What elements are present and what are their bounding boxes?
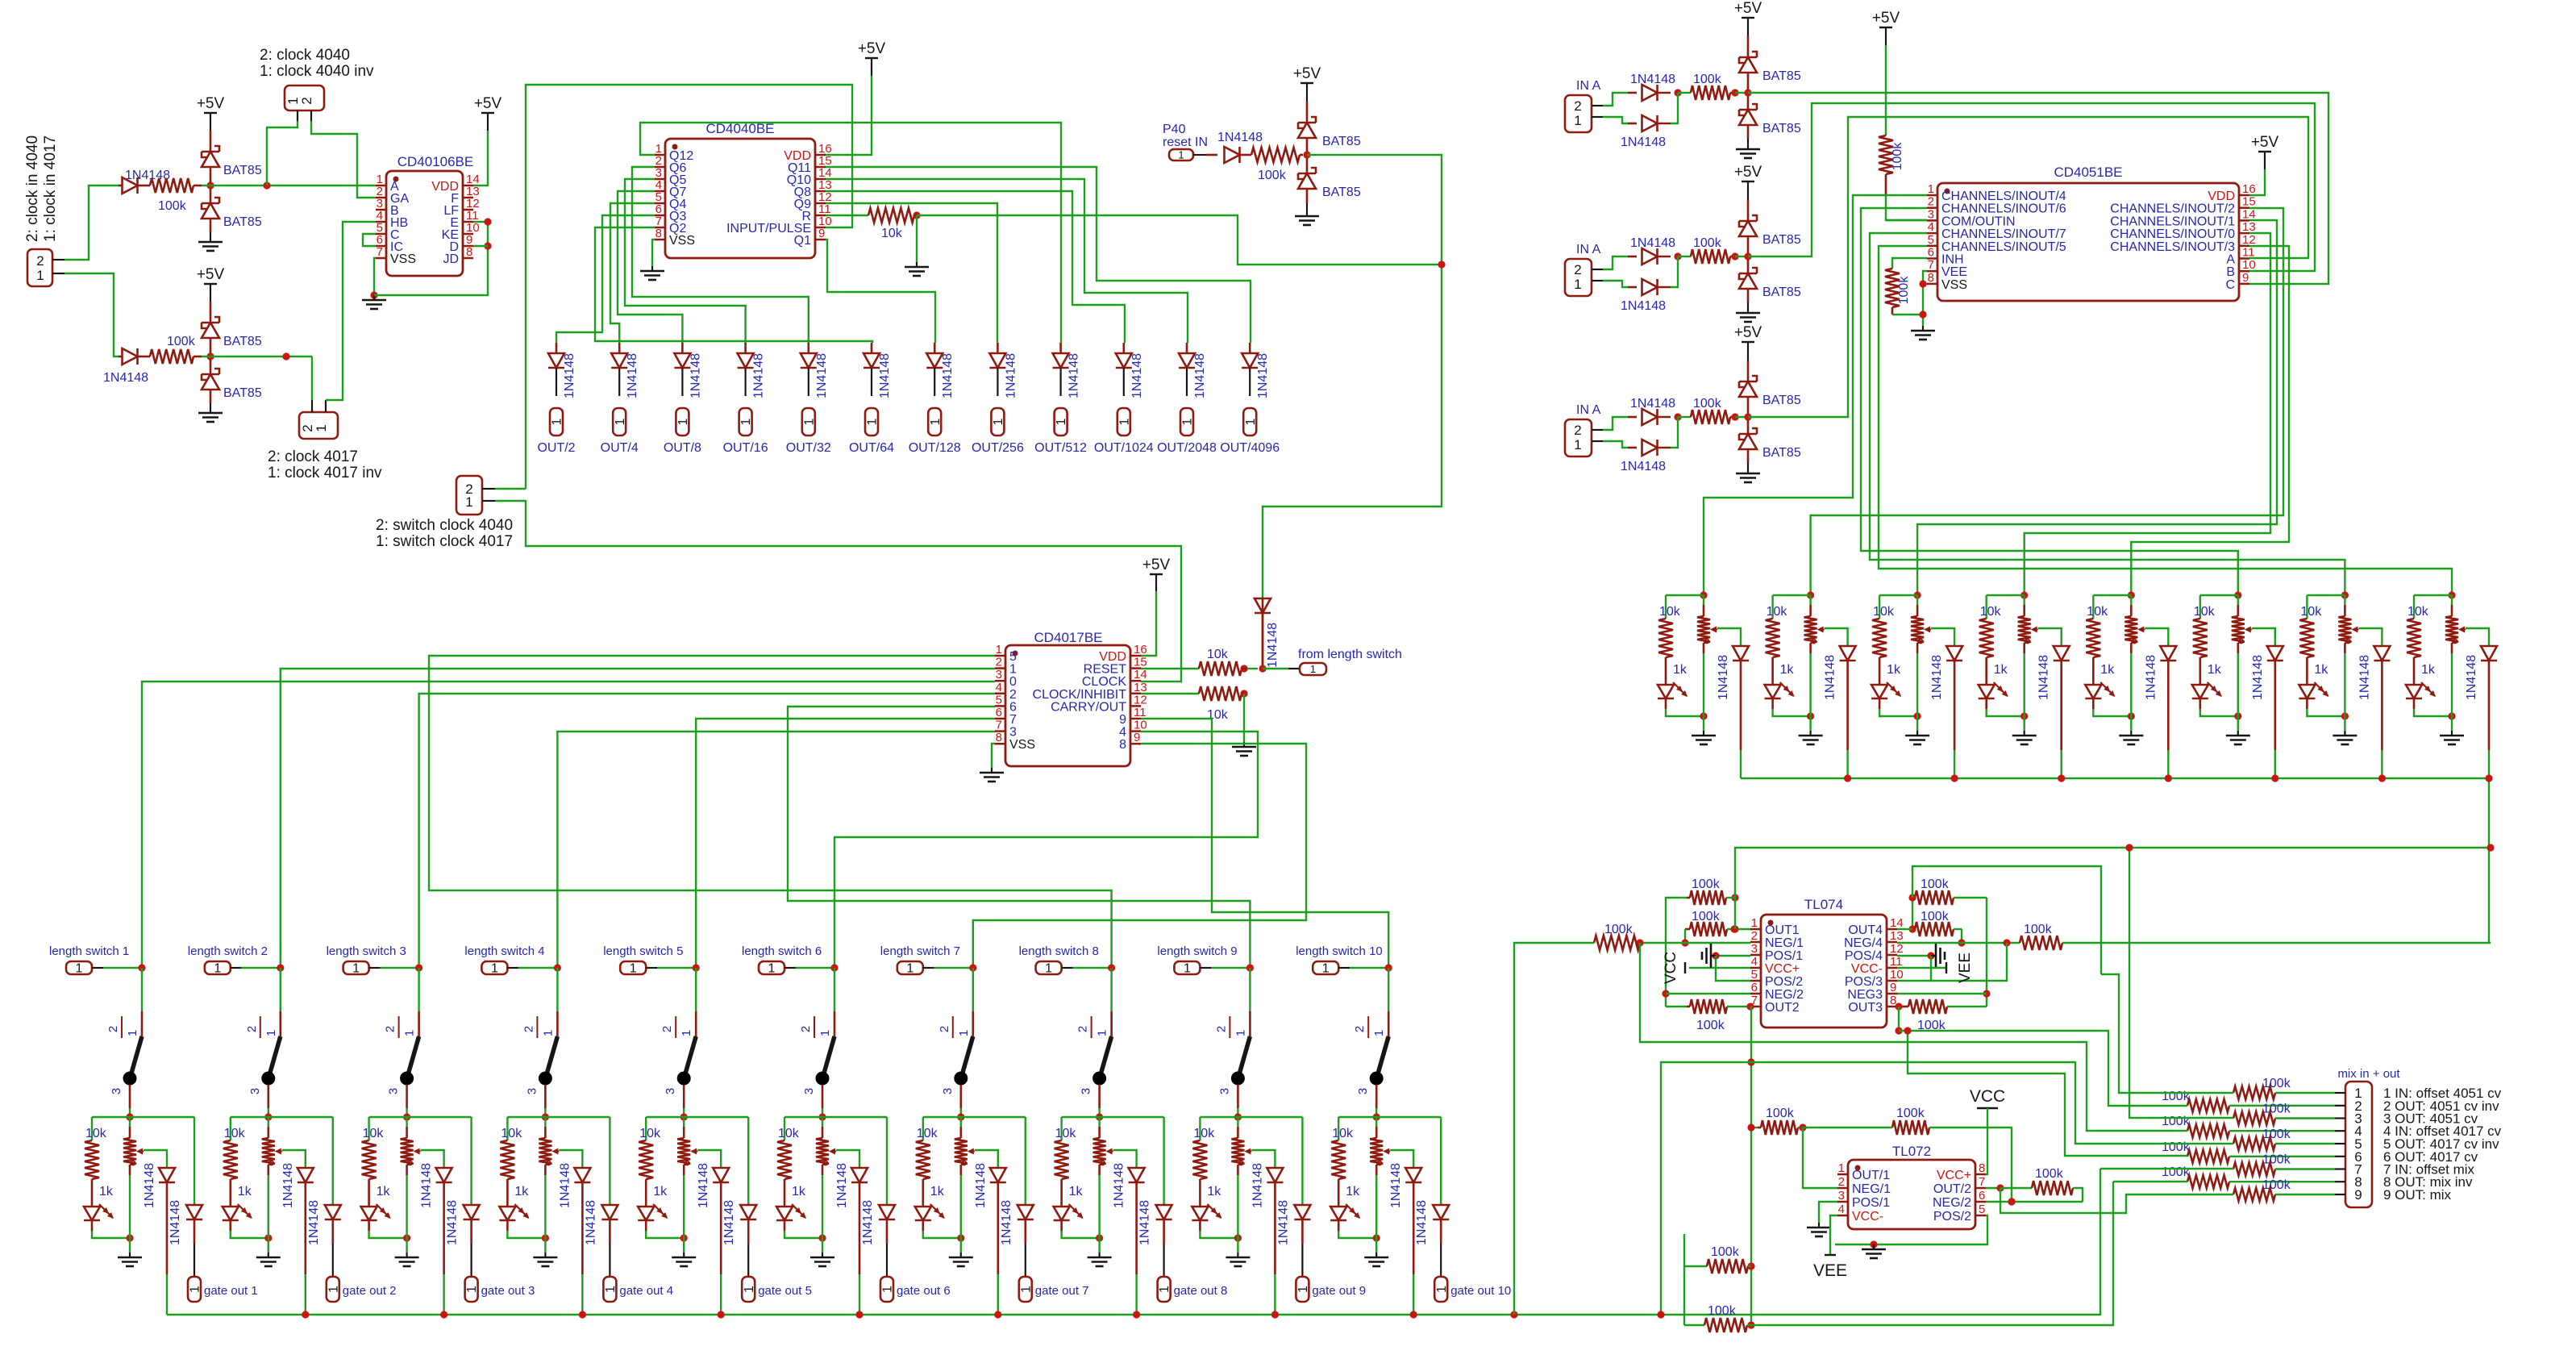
svg-text:length switch 5: length switch 5	[603, 944, 683, 958]
svg-text:1: 1	[739, 418, 753, 425]
U1 VSS ground wire	[362, 258, 386, 309]
svg-text:100k: 100k	[2162, 1115, 2191, 1128]
connector P-sw3	[343, 961, 381, 976]
connector IN A	[1565, 259, 1603, 296]
svg-text:C: C	[2225, 278, 2235, 292]
svg-text:2: clock 4017: 2: clock 4017	[268, 448, 358, 465]
potentiometer RV-p6 10k	[2194, 595, 2252, 716]
svg-text:length switch 6: length switch 6	[742, 944, 822, 958]
ground pot 6	[2226, 716, 2250, 744]
svg-text:mix in + out: mix in + out	[2337, 1067, 2400, 1081]
diode D-pw4 1N4148	[2037, 628, 2070, 778]
potentiometer RV3 10k	[363, 1117, 421, 1238]
U4 pin 3 COM/OUTIN	[1927, 207, 2016, 228]
diode D-OUT2 1N4148	[611, 343, 639, 398]
diode D-gate9 1N4148	[1276, 1117, 1310, 1277]
resistor R4 100k	[1251, 148, 1303, 182]
svg-text:1: 1	[465, 1286, 479, 1293]
resistor R-sw1 1k	[85, 1117, 114, 1207]
svg-text:1N4148: 1N4148	[722, 1200, 736, 1245]
svg-text:gate out 5: gate out 5	[758, 1284, 812, 1298]
svg-text:NEG/2: NEG/2	[1765, 988, 1804, 1002]
LED D-sw6	[776, 1204, 826, 1242]
svg-text:14: 14	[1134, 668, 1147, 682]
+5V supply	[197, 266, 225, 323]
node pot 4 top	[2020, 591, 2028, 598]
potentiometer RV6 10k	[778, 1117, 836, 1238]
svg-text:1N4148: 1N4148	[1000, 1200, 1013, 1245]
svg-text:1: 1	[403, 1030, 417, 1036]
op-amp U6 TL072 box	[1848, 1144, 1975, 1229]
svg-text:3: 3	[387, 1088, 401, 1094]
diode D-pw8 1N4148	[2465, 628, 2497, 778]
wire U2 Q12 route	[640, 123, 1061, 343]
svg-text:NEG/1: NEG/1	[1765, 936, 1804, 950]
wire OUT2 to mix5	[0, 0, 1, 1]
U4 pin 10 B	[2226, 258, 2255, 279]
node clk4017	[206, 352, 214, 360]
+5V supply	[1293, 65, 1321, 123]
diode D-OUT1 1N4148	[548, 343, 576, 398]
svg-text:4: 4	[1928, 220, 1934, 234]
U2 pin 12 Q9	[794, 190, 832, 211]
U1 +5V supply	[473, 95, 501, 186]
resistor 100k	[1678, 397, 1752, 424]
U5 VCC+ supply	[1663, 952, 1750, 984]
+5V supply	[1734, 164, 1762, 221]
connector P-sw7	[897, 961, 934, 976]
U3 pin 10 4	[1119, 719, 1147, 740]
svg-text:100k: 100k	[2262, 1178, 2291, 1192]
svg-text:3: 3	[248, 1088, 262, 1094]
svg-text:1k: 1k	[930, 1185, 945, 1199]
svg-text:OUT/512: OUT/512	[1034, 441, 1087, 455]
svg-text:100k: 100k	[2262, 1077, 2291, 1090]
gate bus wire	[167, 1169, 2100, 1319]
svg-text:2: 2	[799, 1026, 813, 1032]
LED D-sw9	[1192, 1204, 1242, 1242]
wire mix inv to row8	[1751, 1182, 2113, 1325]
svg-text:1: 1	[604, 1286, 618, 1293]
svg-text:100k: 100k	[1693, 397, 1722, 411]
svg-text:1: 1	[680, 1030, 693, 1036]
U5 pin 10 POS/3	[1845, 968, 1904, 989]
svg-text:1: 1	[1181, 418, 1195, 425]
diode D-OUT7 1N4148	[926, 343, 955, 398]
node pot 7 top	[2341, 591, 2349, 598]
wire clock in 4040	[65, 186, 119, 260]
svg-text:1: 1	[189, 1286, 202, 1293]
ground pot 1	[1692, 716, 1716, 744]
LED D-sw2	[223, 1204, 273, 1242]
svg-text:2: 2	[1574, 423, 1581, 438]
svg-text:1N4148: 1N4148	[697, 1163, 710, 1208]
diode D-OUT4 1N4148	[738, 343, 766, 398]
label length switch 5	[603, 944, 683, 958]
ground pot 7	[2333, 716, 2357, 744]
+5V supply	[197, 95, 225, 152]
svg-text:POS/1: POS/1	[1852, 1196, 1890, 1210]
svg-text:length switch 8: length switch 8	[1019, 944, 1099, 958]
U1 pin 4 HB	[376, 209, 408, 230]
U5 pin 8 OUT3	[1848, 994, 1897, 1015]
svg-text:4: 4	[1838, 1203, 1845, 1216]
svg-text:1N4148: 1N4148	[1621, 299, 1666, 313]
svg-text:12: 12	[1890, 942, 1904, 956]
diode D-gate10 1N4148	[1415, 1117, 1449, 1277]
wire U2 output route	[632, 167, 809, 343]
wire mix row1	[2101, 974, 2233, 1093]
wire U2 Q1 route	[826, 240, 935, 343]
svg-text:Q1: Q1	[794, 234, 811, 248]
U4 pin 4 CHANNELS/INOUT/7	[1927, 220, 2066, 241]
diode D-OUT12 1N4148	[1242, 343, 1270, 398]
diode D-wiper8 1N4148	[1113, 1150, 1145, 1315]
wire IN A pin1	[1603, 117, 1628, 123]
diode D-pw2 1N4148	[1824, 628, 1856, 778]
ground	[1736, 138, 1760, 158]
svg-text:VSS: VSS	[390, 252, 416, 266]
wire P3.1 to U1.HB	[326, 222, 376, 400]
wire U3 out to switch 7	[973, 744, 1306, 968]
svg-text:1k: 1k	[1069, 1185, 1084, 1199]
wire mix row5	[1751, 1062, 2233, 1144]
svg-text:3: 3	[941, 1088, 955, 1094]
resistor R-mix8 100k	[2162, 1165, 2335, 1188]
svg-text:CARRY/OUT: CARRY/OUT	[1051, 700, 1126, 714]
svg-text:3: 3	[1217, 1088, 1231, 1094]
svg-text:100k: 100k	[167, 335, 196, 348]
svg-text:OUT/128: OUT/128	[909, 441, 961, 455]
svg-text:BAT85: BAT85	[1762, 286, 1801, 299]
svg-text:1: 1	[1158, 1286, 1171, 1293]
connector gate out 2	[327, 1277, 397, 1302]
wire U3 out to switch 3	[419, 694, 995, 968]
connector P4 switch clock	[456, 476, 495, 515]
svg-text:+5V: +5V	[197, 266, 225, 283]
svg-text:7: 7	[1979, 1175, 1985, 1189]
svg-text:3: 3	[1356, 1088, 1370, 1094]
svg-text:9: 9	[2242, 271, 2249, 285]
svg-text:1N4148: 1N4148	[2144, 655, 2158, 700]
svg-text:2: clock in 4040: 2: clock in 4040	[24, 135, 41, 242]
U2 +5V supply	[826, 40, 885, 155]
U1 pin 1 A	[376, 173, 399, 194]
svg-text:4: 4	[1751, 955, 1758, 969]
svg-text:16: 16	[2242, 182, 2256, 196]
U1 pin 9 D	[449, 233, 473, 254]
svg-text:3: 3	[525, 1088, 539, 1094]
svg-text:100k: 100k	[158, 199, 187, 213]
schottky BAT85 lower	[1739, 96, 1801, 138]
wire U2 Q9 route	[826, 203, 997, 343]
U4 pin 7 VEE	[1927, 258, 1967, 279]
resistor R8 100k INH pulldown	[1885, 258, 1927, 315]
note: clock in labels	[24, 135, 59, 242]
svg-text:1k: 1k	[1207, 1185, 1221, 1199]
svg-text:1: 1	[743, 1286, 756, 1293]
resistor 100k	[1678, 236, 1752, 264]
svg-text:1k: 1k	[653, 1185, 668, 1199]
svg-text:1N4148: 1N4148	[1004, 353, 1017, 398]
svg-text:3: 3	[1928, 207, 1934, 221]
svg-text:1: 1	[1435, 1286, 1449, 1293]
ground pot 3	[1905, 716, 1929, 744]
resistor R-p5 1k	[2086, 595, 2115, 685]
U4 pin 15 CHANNELS/INOUT/2	[2110, 195, 2255, 216]
wire U4 ch to pot 7	[1870, 233, 2345, 595]
diode 1N4148 upper	[1628, 397, 1675, 425]
resistor R11 100k gate bus	[1514, 923, 1640, 1315]
resistor R2 100k	[150, 335, 202, 364]
svg-text:OUT3: OUT3	[1848, 1001, 1883, 1015]
svg-text:9: 9	[1134, 731, 1140, 744]
svg-text:1N4148: 1N4148	[1415, 1200, 1429, 1245]
svg-text:2: 2	[384, 1026, 397, 1032]
svg-text:CHANNELS/INOUT/4: CHANNELS/INOUT/4	[1941, 190, 2066, 203]
svg-text:2: switch clock 4040: 2: switch clock 4040	[376, 517, 513, 534]
svg-text:1: 1	[1751, 916, 1758, 930]
U5 pin 6 NEG/2	[1750, 981, 1804, 1002]
svg-text:1N4148: 1N4148	[974, 1163, 988, 1208]
svg-text:length switch 4: length switch 4	[464, 944, 544, 958]
svg-text:2: 2	[36, 253, 44, 269]
svg-text:1: 1	[614, 418, 627, 425]
U3 pin 1 5	[995, 643, 1017, 664]
svg-text:1: 1	[929, 418, 943, 425]
svg-text:100k: 100k	[1921, 910, 1950, 923]
resistor R-p1 1k	[1658, 595, 1688, 685]
svg-text:1: clock in 4017: 1: clock in 4017	[42, 135, 59, 242]
svg-text:1: 1	[327, 1286, 340, 1293]
wire IN A1 to U4.C	[1748, 93, 2328, 284]
ground sw10	[1364, 1238, 1388, 1266]
connector OUT/2	[537, 408, 575, 455]
svg-text:1N4148: 1N4148	[1824, 655, 1837, 700]
diode 1N4148 upper	[1628, 236, 1675, 265]
svg-text:10: 10	[1134, 719, 1147, 732]
svg-text:P40: P40	[1163, 123, 1186, 136]
diode D8 1N4148 reset	[1255, 598, 1280, 668]
svg-text:1k: 1k	[2100, 663, 2115, 677]
potentiometer RV4 10k	[501, 1117, 559, 1238]
svg-text:10k: 10k	[224, 1127, 246, 1140]
svg-text:1: clock 4017 inv: 1: clock 4017 inv	[268, 465, 382, 481]
wire sw6 rail	[784, 1116, 887, 1118]
svg-text:10k: 10k	[85, 1127, 107, 1140]
U2 pin 8 VSS	[655, 227, 695, 248]
U6 pin 1 OUT/1	[1837, 1161, 1890, 1182]
svg-text:+5V: +5V	[1734, 324, 1762, 341]
svg-text:10k: 10k	[2087, 605, 2108, 619]
svg-text:1k: 1k	[99, 1185, 114, 1199]
wire U4 ch to pot 4	[2025, 233, 2270, 595]
LED D-p6	[2192, 682, 2242, 720]
svg-text:OUT2: OUT2	[1765, 1001, 1800, 1015]
svg-text:2: 2	[1574, 98, 1581, 114]
svg-text:10k: 10k	[2407, 605, 2429, 619]
svg-text:from length switch: from length switch	[1298, 648, 1402, 661]
U3 pin 7 3	[995, 719, 1017, 740]
svg-text:length switch 3: length switch 3	[327, 944, 406, 958]
wire pot 5 rail	[2093, 594, 2131, 596]
diode D-OUT8 1N4148	[989, 343, 1017, 398]
svg-text:5: 5	[996, 693, 1002, 707]
svg-text:+5V: +5V	[1734, 0, 1762, 17]
connector OUT/2048	[1157, 408, 1217, 455]
wire U3 out to switch 5	[696, 719, 995, 968]
wire pot 3 rail	[1879, 594, 1917, 596]
wire U4 ch to pot 2	[1811, 208, 2283, 595]
wire pot 6 rail	[2200, 594, 2238, 596]
diode D-wiper5 1N4148	[697, 1150, 729, 1315]
svg-text:100k: 100k	[2262, 1153, 2291, 1167]
resistor R-sw2 1k	[223, 1117, 252, 1207]
svg-text:1: 1	[1296, 1286, 1310, 1293]
svg-text:OUT/2: OUT/2	[537, 441, 575, 455]
wire U2 output route	[618, 191, 682, 343]
U2 pin 5 Q4	[655, 190, 686, 211]
svg-text:100k: 100k	[1766, 1107, 1795, 1120]
ground	[1295, 203, 1319, 225]
svg-text:reset IN: reset IN	[1163, 135, 1208, 149]
svg-text:7: 7	[1928, 258, 1934, 272]
svg-text:1N4148: 1N4148	[1630, 397, 1675, 411]
svg-text:10k: 10k	[1767, 605, 1788, 619]
connector OUT/32	[786, 408, 831, 455]
svg-text:NEG/2: NEG/2	[1933, 1196, 1971, 1210]
diode 1N4148 upper	[1628, 73, 1675, 101]
schottky BAT85 lower	[1739, 260, 1801, 302]
svg-text:VSS: VSS	[1009, 738, 1035, 752]
resistor R19 100k U6 OUT/2	[2000, 1167, 2083, 1202]
svg-text:10k: 10k	[1055, 1127, 1077, 1140]
svg-text:100k: 100k	[1692, 878, 1721, 891]
node	[1671, 413, 1682, 448]
svg-text:6: 6	[1009, 700, 1017, 714]
svg-text:VCC: VCC	[1663, 952, 1679, 984]
svg-text:100k: 100k	[1693, 73, 1722, 86]
U5 pin 3 POS/1	[1750, 942, 1803, 963]
wire pot 4 rail	[1987, 594, 2025, 596]
wire pot 1 rail	[1666, 594, 1704, 596]
svg-text:1: 1	[264, 1030, 278, 1036]
wire clk4017 run	[202, 352, 312, 360]
svg-text:1k: 1k	[377, 1185, 391, 1199]
connector P5 from length switch	[1263, 648, 1402, 675]
svg-text:5: 5	[1009, 650, 1017, 664]
connector OUT/128	[909, 408, 961, 455]
label IN A	[1576, 79, 1601, 93]
svg-text:100k: 100k	[1711, 1245, 1740, 1259]
node	[1671, 252, 1682, 287]
resistor R-mix6 100k	[2162, 1140, 2335, 1163]
svg-text:VCC+: VCC+	[1937, 1169, 1971, 1182]
svg-text:1N4148: 1N4148	[1630, 236, 1675, 250]
resistor R-mix1 100k	[2233, 1077, 2335, 1099]
svg-text:12: 12	[2242, 233, 2256, 247]
svg-text:1N4148: 1N4148	[558, 1163, 572, 1208]
resistor R14 100k	[1897, 910, 1966, 947]
svg-text:4: 4	[996, 681, 1002, 694]
U5 NEG/4 long wire	[1897, 939, 2020, 946]
wire IN A pin2	[1603, 417, 1628, 430]
svg-text:+5V: +5V	[1872, 10, 1900, 27]
svg-text:1N4148: 1N4148	[103, 371, 148, 385]
switch SW7	[938, 1011, 973, 1121]
U2 pin 2 Q6	[655, 154, 686, 175]
svg-text:1N4148: 1N4148	[1067, 353, 1081, 398]
LED D-sw10	[1330, 1204, 1380, 1242]
svg-text:1N4148: 1N4148	[1251, 1163, 1264, 1208]
schottky D5 BAT85 upper	[202, 317, 262, 353]
svg-text:1: 1	[36, 268, 44, 283]
U2 pin 7 Q2	[655, 215, 686, 236]
U4 pin 8 VSS	[1927, 271, 1967, 292]
U6 pin 5 POS/2	[1933, 1203, 1986, 1224]
svg-text:13: 13	[2242, 220, 2256, 234]
resistor R-sw4 1k	[500, 1117, 529, 1207]
connector OUT/16	[723, 408, 768, 455]
svg-text:VDD: VDD	[2208, 190, 2235, 203]
connector IN A	[1565, 419, 1603, 456]
svg-text:2: clock 4040: 2: clock 4040	[260, 47, 350, 64]
svg-text:100k: 100k	[1896, 1107, 1925, 1120]
wire sw7 rail	[923, 1116, 1026, 1118]
P6 pin 5	[2335, 1136, 2499, 1152]
resistor R-mix4 100k	[2162, 1115, 2335, 1137]
op-amp U1 CD40106BE box	[386, 154, 473, 276]
svg-text:1N4148: 1N4148	[2358, 655, 2371, 700]
diode 1N4148 lower	[1621, 440, 1671, 473]
diode D-pw6 1N4148	[2251, 628, 2283, 778]
U4 pin 16 VDD	[2208, 182, 2255, 203]
wire mix row8	[2113, 1181, 2187, 1182]
schottky BAT85 upper	[1739, 215, 1801, 253]
svg-text:OUT1: OUT1	[1765, 923, 1800, 937]
wire P3.2 to clk4017 node	[311, 356, 313, 400]
U1 outputs tie wire	[374, 218, 492, 295]
svg-text:VSS: VSS	[669, 234, 695, 248]
wire U5 OUT2 chain	[1657, 1007, 1754, 1329]
U5 pin 4 VCC+	[1750, 955, 1800, 976]
U4 pin 11 A	[2226, 246, 2254, 267]
potentiometer RV5 10k	[639, 1117, 697, 1238]
svg-text:12: 12	[1134, 693, 1147, 707]
wire IN A pin2	[1603, 93, 1628, 106]
diode D1 1N4148	[119, 169, 170, 194]
svg-text:1: 1	[768, 962, 776, 976]
svg-text:1N4148: 1N4148	[1621, 460, 1666, 473]
svg-text:VSS: VSS	[1941, 278, 1967, 292]
svg-text:1N4148: 1N4148	[169, 1200, 182, 1245]
svg-text:9: 9	[1890, 981, 1896, 994]
resistor R5 10k on U3.RESET	[1141, 648, 1267, 676]
wire mix row9	[2000, 1188, 2233, 1213]
svg-text:1: 1	[992, 418, 1005, 425]
ground	[1736, 302, 1760, 322]
svg-text:OUT/4096: OUT/4096	[1220, 441, 1280, 455]
diode D-gate3 1N4148	[446, 1117, 480, 1277]
svg-text:gate out 4: gate out 4	[619, 1284, 673, 1298]
U3 pin 16 VDD	[1099, 643, 1147, 664]
svg-text:POS/1: POS/1	[1765, 949, 1803, 963]
svg-text:2: 2	[245, 1026, 259, 1032]
ground sw6	[810, 1238, 834, 1266]
switch SW10	[1353, 1011, 1388, 1121]
svg-text:1: 1	[1019, 1286, 1033, 1293]
svg-text:CD4051BE: CD4051BE	[2054, 165, 2122, 180]
